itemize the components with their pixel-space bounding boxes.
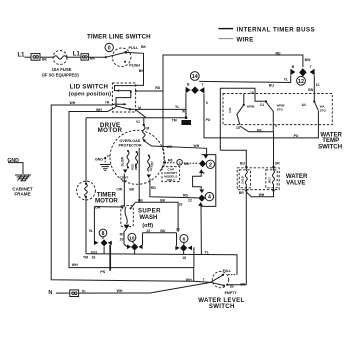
svg-text:WH: WH — [70, 101, 76, 105]
svg-text:M6: M6 — [184, 162, 189, 166]
svg-text:TM: TM — [172, 119, 177, 123]
svg-text:RD: RD — [276, 52, 282, 56]
svg-text:LID SWITCH: LID SWITCH — [70, 84, 109, 91]
svg-text:BU: BU — [160, 229, 166, 233]
svg-text:OVERLOAD: OVERLOAD — [120, 139, 141, 143]
svg-text:WRM: WRM — [247, 105, 255, 109]
svg-text:YL: YL — [284, 77, 289, 81]
svg-text:W: W — [182, 110, 185, 114]
svg-text:BK: BK — [90, 57, 96, 61]
svg-text:32: 32 — [179, 202, 183, 206]
svg-text:12: 12 — [298, 79, 304, 85]
svg-text:PN: PN — [100, 270, 105, 274]
svg-text:PK: PK — [257, 128, 262, 132]
svg-text:L1: L1 — [18, 52, 26, 58]
svg-text:PU: PU — [294, 134, 299, 138]
svg-text:B: B — [187, 83, 190, 87]
svg-text:M6: M6 — [168, 159, 173, 163]
svg-text:FRAME: FRAME — [14, 191, 30, 196]
svg-text:T: T — [310, 65, 313, 69]
svg-text:7H: 7H — [105, 100, 110, 104]
svg-text:WH: WH — [167, 145, 173, 149]
svg-text:INTERNAL TIMER BUSS: INTERNAL TIMER BUSS — [237, 26, 316, 33]
svg-text:15: 15 — [107, 154, 111, 158]
svg-text:BU: BU — [269, 84, 275, 88]
svg-text:COL: COL — [228, 107, 232, 113]
svg-text:BK: BK — [160, 198, 166, 202]
svg-text:1B: 1B — [230, 285, 235, 289]
svg-text:1: 1 — [179, 161, 181, 165]
svg-text:8: 8 — [102, 231, 105, 237]
svg-text:STO: STO — [320, 109, 327, 113]
svg-text:BK: BK — [129, 187, 135, 191]
svg-text:12: 12 — [316, 83, 320, 87]
svg-text:PULL: PULL — [129, 46, 140, 50]
svg-text:BK: BK — [141, 45, 147, 49]
svg-text:T: T — [202, 83, 205, 87]
svg-text:8: 8 — [203, 171, 205, 175]
svg-text:h: h — [206, 101, 208, 105]
svg-text:RO: RO — [120, 233, 125, 237]
svg-text:TM: TM — [83, 256, 88, 260]
svg-text:BR: BR — [239, 191, 244, 195]
svg-text:WH: WH — [186, 278, 192, 282]
svg-text:18: 18 — [182, 256, 186, 260]
svg-text:RD: RD — [155, 86, 161, 90]
svg-text:SWITCH: SWITCH — [209, 303, 235, 310]
svg-text:2: 2 — [209, 162, 212, 168]
svg-text:C4: C4 — [260, 103, 264, 107]
svg-text:0: 0 — [108, 46, 111, 52]
svg-text:L1: L1 — [73, 51, 81, 57]
svg-text:BK: BK — [139, 69, 145, 73]
svg-text:STO: STO — [277, 107, 284, 111]
svg-text:BW: BW — [305, 58, 312, 62]
svg-text:(off): (off) — [142, 223, 153, 229]
svg-text:RD: RD — [183, 193, 189, 197]
svg-text:SLOW: SLOW — [120, 157, 124, 167]
svg-text:VALVE: VALVE — [286, 179, 305, 186]
svg-text:BU: BU — [240, 161, 245, 165]
svg-text:WIRE: WIRE — [237, 36, 254, 43]
svg-text:20: 20 — [120, 238, 124, 242]
svg-text:MOTOR: MOTOR — [98, 127, 123, 134]
svg-text:WH: WH — [193, 144, 199, 148]
svg-text:PROTECTOR: PROTECTOR — [118, 144, 141, 148]
svg-text:22: 22 — [188, 198, 192, 202]
svg-text:4: 4 — [275, 124, 277, 128]
svg-text:WH: WH — [117, 289, 123, 293]
svg-text:BN: BN — [240, 282, 246, 286]
svg-text:START: START — [149, 161, 155, 172]
svg-text:SUPER: SUPER — [138, 209, 161, 215]
svg-text:OR: OR — [275, 161, 281, 165]
svg-text:10A FUSE: 10A FUSE — [52, 67, 72, 72]
svg-text:BK: BK — [42, 57, 48, 61]
svg-text:A4: A4 — [302, 103, 306, 107]
svg-text:SWITCH: SWITCH — [318, 143, 342, 150]
svg-text:YL: YL — [175, 105, 180, 109]
svg-text:V1: V1 — [136, 120, 140, 124]
svg-text:TIMER LINE SWITCH: TIMER LINE SWITCH — [87, 33, 151, 40]
svg-text:10: 10 — [129, 235, 135, 241]
svg-text:PUSH: PUSH — [129, 64, 140, 68]
svg-text:7h: 7h — [82, 290, 86, 294]
svg-text:WASH: WASH — [139, 215, 157, 221]
svg-text:4: 4 — [208, 195, 211, 201]
svg-text:MOTOR: MOTOR — [95, 198, 118, 205]
svg-text:13: 13 — [250, 91, 254, 95]
svg-text:ONLY: ONLY — [167, 178, 176, 182]
svg-text:T: T — [203, 278, 206, 282]
svg-text:DR: DR — [95, 206, 101, 210]
svg-text:HOT: HOT — [267, 177, 271, 183]
svg-text:WH: WH — [259, 193, 265, 197]
svg-text:22: 22 — [146, 229, 150, 233]
svg-text:RD: RD — [151, 186, 157, 190]
svg-text:FULL: FULL — [223, 269, 232, 273]
svg-text:N: N — [48, 290, 52, 296]
svg-text:18: 18 — [91, 256, 95, 260]
svg-text:WH: WH — [72, 263, 78, 267]
svg-text:BN: BN — [308, 88, 314, 92]
svg-text:YL: YL — [204, 250, 209, 254]
svg-text:PU: PU — [206, 118, 211, 122]
svg-text:BK: BK — [138, 199, 144, 203]
svg-text:14: 14 — [192, 74, 198, 80]
svg-text:9L: 9L — [89, 229, 93, 233]
svg-text:EMPTY: EMPTY — [225, 291, 238, 295]
svg-text:15: 15 — [236, 126, 240, 130]
svg-text:GTA: GTA — [183, 121, 190, 125]
svg-text:WH: WH — [96, 108, 102, 112]
svg-text:COLD: COLD — [241, 176, 245, 184]
svg-text:6: 6 — [183, 237, 186, 243]
svg-text:(open position): (open position) — [69, 92, 112, 98]
svg-text:M: M — [146, 127, 149, 131]
svg-text:CW: CW — [116, 187, 123, 191]
svg-text:WHT: WHT — [134, 163, 138, 170]
svg-text:GND: GND — [95, 158, 103, 162]
svg-text:B: B — [292, 65, 295, 69]
svg-text:30: 30 — [176, 228, 180, 232]
svg-text:(IF SO EQUIPPED): (IF SO EQUIPPED) — [42, 72, 79, 77]
